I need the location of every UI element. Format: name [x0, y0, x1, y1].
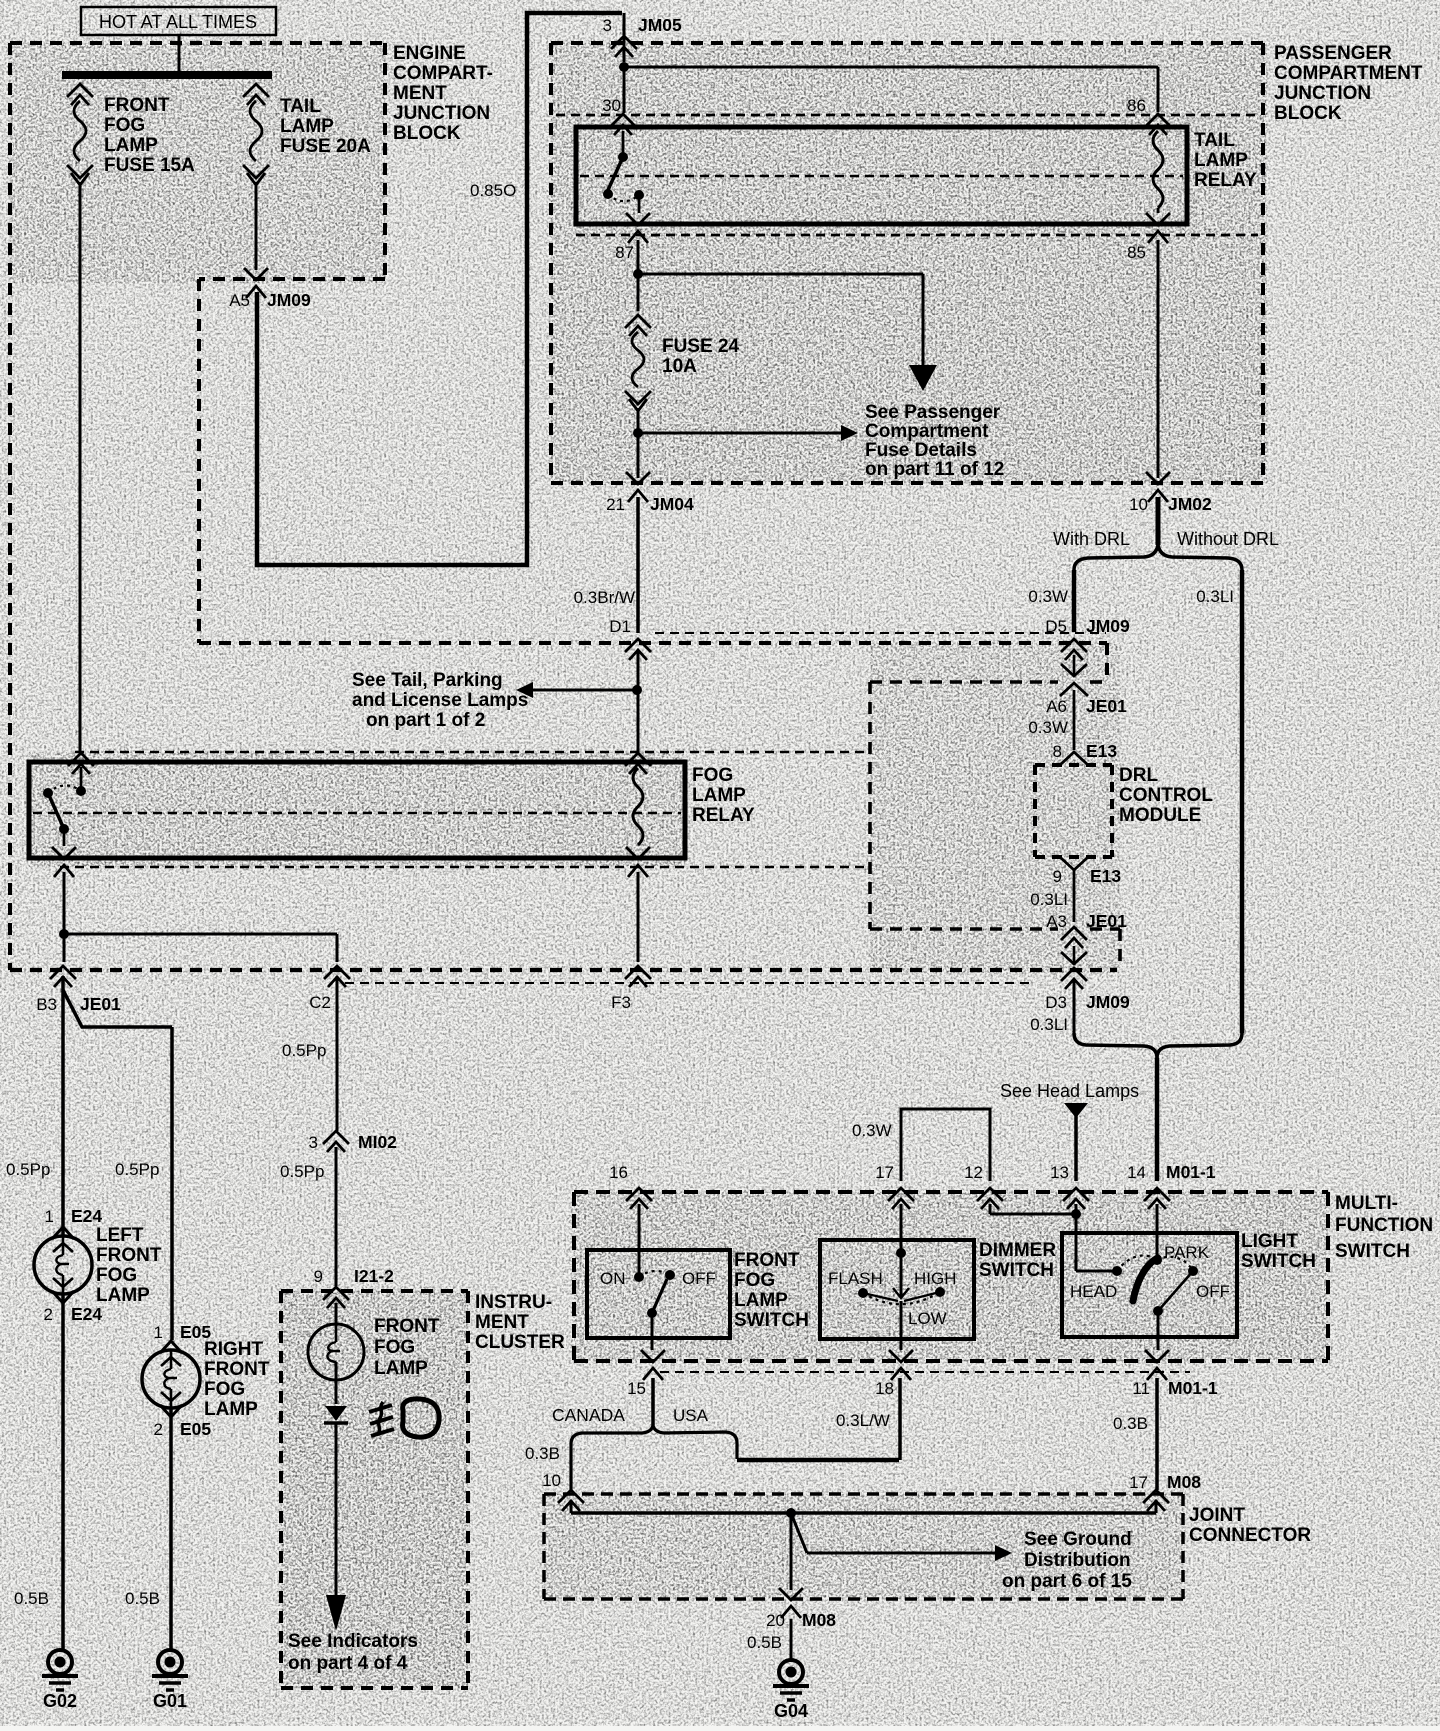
connector E24 pin 1: [45, 1206, 103, 1226]
wire pin 16 to fog switch: [638, 1204, 641, 1277]
with-DRL wire down to D5: [1072, 570, 1077, 632]
svg-text:3: 3: [603, 16, 612, 35]
svg-text:LAMP: LAMP: [96, 1285, 150, 1306]
connector D3 JM09: [1045, 968, 1130, 1012]
svg-text:11: 11: [1132, 1379, 1150, 1398]
wire label 0.85O: [470, 181, 516, 200]
svg-text:0.3L/W: 0.3L/W: [836, 1411, 890, 1430]
wire pin 87 down to JM04: [637, 240, 640, 478]
connector D5 to A6 link: [1061, 655, 1087, 676]
tail lamp relay pin 30: [602, 96, 636, 135]
left front fog lamp: [34, 1227, 92, 1303]
engine compartment junction block label: [393, 43, 493, 144]
connector M08 pin 10: [542, 1471, 584, 1511]
wire from HOT AT ALL TIMES to bus bar: [178, 35, 181, 71]
wire I21-2 into indicator: [335, 1303, 338, 1325]
tail lamp relay coil: [1153, 131, 1163, 213]
fog lamp relay coil output pin: [626, 847, 650, 877]
svg-text:OFF: OFF: [682, 1269, 716, 1288]
connector A3 JE01: [1046, 911, 1127, 948]
svg-text:HEAD: HEAD: [1070, 1282, 1117, 1301]
svg-text:and License Lamps: and License Lamps: [352, 690, 528, 711]
tail lamp fuse label: [280, 96, 371, 157]
svg-text:10: 10: [1129, 495, 1148, 514]
light switch box: [1062, 1233, 1237, 1337]
svg-text:M01-1: M01-1: [1168, 1378, 1218, 1398]
svg-text:LAMP: LAMP: [734, 1290, 788, 1311]
svg-text:LAMP: LAMP: [280, 116, 334, 137]
svg-text:on part 11 of 12: on part 11 of 12: [865, 459, 1004, 480]
svg-text:86: 86: [1127, 96, 1146, 115]
svg-text:0.3W: 0.3W: [852, 1121, 892, 1140]
svg-text:G04: G04: [774, 1701, 808, 1721]
connector M01-1 pin 17: [875, 1163, 914, 1209]
merged wire to pin 14: [1155, 1058, 1160, 1181]
svg-text:3: 3: [309, 1133, 318, 1152]
connector M08 pin 17: [1129, 1472, 1201, 1511]
svg-text:COMPART-: COMPART-: [393, 63, 493, 84]
wire C2 down to MI02: [336, 976, 339, 1131]
connector D1: [609, 617, 651, 660]
front fog lamp fuse label: [104, 95, 195, 176]
harness boundary dashed lines: [10, 970, 1117, 983]
connector M01-1 pin 16: [609, 1163, 652, 1209]
svg-text:LEFT: LEFT: [96, 1225, 144, 1246]
node: junction at JM05 feed: [619, 62, 629, 72]
wire JM02 to DRL split: [1156, 497, 1161, 545]
svg-text:F3: F3: [611, 993, 631, 1012]
canada/usa split brace: [571, 1425, 737, 1444]
svg-text:LAMP: LAMP: [692, 785, 746, 806]
note: see indicators: [288, 1631, 418, 1674]
wire from tail lamp fuse to connector A5: [255, 182, 258, 270]
svg-text:FOG: FOG: [104, 115, 145, 136]
thin dashed row below MFS: [660, 1371, 1190, 1373]
svg-text:RELAY: RELAY: [692, 805, 755, 826]
svg-text:0.5B: 0.5B: [14, 1589, 49, 1608]
svg-text:85: 85: [1127, 243, 1146, 262]
svg-text:FUSE 15A: FUSE 15A: [104, 155, 195, 176]
wire pin 11 down to joint connector: [1155, 1378, 1159, 1490]
svg-text:0.3W: 0.3W: [1028, 718, 1068, 737]
label USA: [673, 1406, 709, 1425]
wire label 0.3W (staple): [852, 1121, 892, 1140]
svg-text:LIGHT: LIGHT: [1241, 1231, 1298, 1252]
svg-text:FOG: FOG: [734, 1270, 775, 1291]
svg-text:FRONT: FRONT: [104, 95, 170, 116]
wire E13 pin 9 to A3 (0.3LI): [1030, 870, 1074, 922]
svg-text:E13: E13: [1086, 741, 1117, 761]
svg-text:RELAY: RELAY: [1194, 170, 1257, 191]
svg-text:Without DRL: Without DRL: [1177, 529, 1279, 549]
wire label 0.3W: [1028, 587, 1068, 606]
svg-text:INSTRU-: INSTRU-: [475, 1292, 552, 1313]
wire dimmer common to pin 18: [900, 1301, 903, 1350]
svg-text:I21-2: I21-2: [354, 1266, 394, 1286]
connector I21-2 pin 9: [314, 1266, 395, 1308]
svg-text:2: 2: [154, 1420, 163, 1439]
svg-text:B3: B3: [36, 995, 57, 1014]
wire pin 18 down (0.3L/W): [898, 1378, 902, 1460]
fog lamp relay coil: [633, 768, 643, 845]
svg-text:FOG: FOG: [204, 1379, 245, 1400]
svg-text:M01-1: M01-1: [1166, 1162, 1216, 1182]
svg-text:CLUSTER: CLUSTER: [475, 1332, 565, 1353]
svg-text:DRL: DRL: [1119, 765, 1158, 786]
svg-text:20: 20: [766, 1611, 785, 1630]
wire A6 to E13 pin 8 (0.3W): [1028, 690, 1074, 750]
svg-text:D1: D1: [609, 617, 631, 636]
connector F3: [611, 966, 651, 1012]
node: branch to see-tail arrow: [632, 685, 642, 695]
connector D5 JM09: [1045, 616, 1130, 660]
front fog lamp switch contacts: [600, 1269, 716, 1318]
svg-text:LOW: LOW: [908, 1309, 947, 1328]
front fog lamp switch label: [734, 1250, 809, 1331]
svg-text:21: 21: [606, 495, 625, 514]
svg-text:FUSE 20A: FUSE 20A: [280, 136, 371, 157]
svg-text:0.5B: 0.5B: [747, 1633, 782, 1652]
svg-text:0.3LI: 0.3LI: [1196, 587, 1234, 606]
svg-text:1: 1: [154, 1323, 163, 1342]
fog lamp relay coil input pin: [625, 753, 651, 774]
node: ground bus junction: [786, 1508, 796, 1518]
svg-text:With DRL: With DRL: [1053, 529, 1130, 549]
arrow to tail parking lamps: [516, 682, 637, 698]
svg-text:15: 15: [627, 1379, 646, 1398]
svg-text:E24: E24: [71, 1206, 102, 1226]
label With DRL: [1053, 529, 1130, 549]
svg-text:G01: G01: [153, 1691, 187, 1711]
connector C2: [309, 966, 350, 1012]
node: junction to instrument cluster branch: [59, 929, 69, 939]
connector M01-1 pin 12: [964, 1163, 1003, 1209]
right front fog lamp: [142, 1341, 200, 1417]
DRL junction dashed box: [870, 682, 1120, 968]
canada wire to joint connector pin 10: [569, 1444, 572, 1490]
multi-function switch dashed box: [574, 1192, 1328, 1361]
svg-text:30: 30: [602, 96, 621, 115]
DRL control module label: [1119, 765, 1213, 826]
svg-text:MI02: MI02: [358, 1132, 397, 1152]
connector M01-1 pin 11: [1132, 1350, 1218, 1398]
svg-text:MENT: MENT: [393, 83, 447, 104]
svg-text:CANADA: CANADA: [552, 1405, 625, 1425]
junction block row dashed lines at fog lamp relay: [60, 752, 868, 867]
see head lamps feed arrow: [1064, 1103, 1088, 1181]
svg-text:10A: 10A: [662, 356, 697, 377]
svg-text:0.5B: 0.5B: [125, 1589, 160, 1608]
svg-text:JM09: JM09: [1086, 992, 1130, 1012]
wire label 0.3B (canada): [525, 1444, 560, 1463]
wire from JM05 junction to tail lamp relay switch (pin 30): [623, 67, 626, 113]
arrow to passenger compartment fuse details: [638, 425, 858, 441]
fuse 24 10A: [625, 315, 651, 411]
note: see head lamps: [1000, 1081, 1139, 1101]
note: see passenger compartment fuse details: [865, 402, 1004, 480]
svg-text:on part 1 of 2: on part 1 of 2: [366, 710, 485, 731]
svg-text:JM09: JM09: [1086, 616, 1130, 636]
wire pin 14 to light switch PARK: [1156, 1204, 1159, 1260]
note: see ground distribution: [1002, 1529, 1132, 1592]
svg-text:See Ground: See Ground: [1024, 1529, 1132, 1550]
front fog lamp indicator label: [374, 1316, 440, 1379]
svg-text:JM09: JM09: [267, 290, 311, 310]
svg-text:M08: M08: [1167, 1472, 1201, 1492]
wire branch to see-passenger arrow: [638, 274, 937, 391]
svg-text:87: 87: [615, 243, 634, 262]
connector A5 JM09: [229, 268, 311, 310]
fuse 24 label: [662, 336, 740, 377]
connector B3 JE01: [36, 966, 121, 1014]
wire pin 17 to dimmer switch: [900, 1204, 903, 1253]
svg-text:SWITCH: SWITCH: [1335, 1241, 1410, 1262]
wire fog relay coil down to F3: [637, 872, 640, 962]
svg-text:JE01: JE01: [80, 994, 121, 1014]
svg-text:CONNECTOR: CONNECTOR: [1189, 1525, 1311, 1546]
tail lamp relay pin 87: [615, 213, 650, 262]
svg-text:10: 10: [542, 1471, 561, 1490]
svg-text:on part 4 of 4: on part 4 of 4: [288, 1653, 408, 1674]
fog lamp relay box: [29, 762, 685, 858]
wire from front fog lamp fuse down to fog lamp relay: [79, 182, 82, 753]
svg-text:8: 8: [1053, 742, 1062, 761]
wire light switch common to pin 11: [1157, 1311, 1160, 1350]
connector M01-1 pin 18: [875, 1350, 913, 1398]
wire D3 down (0.3LI): [1030, 980, 1074, 1034]
arrow to ground distribution: [791, 1513, 1012, 1561]
connector E13 pin 8: [1053, 741, 1118, 765]
svg-text:0.5Pp: 0.5Pp: [6, 1160, 50, 1179]
svg-text:BLOCK: BLOCK: [1274, 103, 1342, 124]
label Without DRL: [1177, 529, 1279, 549]
dashed boundary at JM09 row (y=643): [199, 643, 1107, 682]
wire lamp to ground G02: [61, 1294, 65, 1650]
wire label 0.5Pp (cluster): [280, 1162, 324, 1181]
connector MI02 pin 3: [309, 1131, 398, 1152]
connector M01-1 pin 14: [1127, 1162, 1216, 1209]
connector A6 JE01: [1046, 683, 1127, 716]
svg-text:CONTROL: CONTROL: [1119, 785, 1213, 806]
fog lamp pictogram: [369, 1399, 439, 1437]
svg-text:D5: D5: [1045, 617, 1067, 636]
fog lamp relay switch output pin: [52, 847, 76, 877]
note: see tail parking and license lamps: [352, 670, 528, 731]
svg-text:9: 9: [1053, 867, 1062, 886]
wire from JM05 junction to tail lamp relay coil (pin 86): [624, 67, 1158, 112]
svg-text:FUSE 24: FUSE 24: [662, 336, 740, 357]
light switch contacts: [1070, 1243, 1230, 1316]
svg-text:1: 1: [45, 1207, 54, 1226]
power bus bar: [62, 71, 272, 79]
wire bus to pin 20: [790, 1513, 793, 1590]
svg-text:SWITCH: SWITCH: [734, 1310, 809, 1331]
wire label 0.5Pp left: [6, 1160, 50, 1179]
light switch label: [1241, 1231, 1316, 1272]
connector E24 pin 2: [44, 1304, 103, 1324]
tail lamp relay pin 85: [1127, 213, 1170, 262]
connector M08 pin 20: [766, 1588, 836, 1630]
ground G01: [152, 1650, 188, 1711]
svg-text:16: 16: [609, 1163, 628, 1182]
svg-text:USA: USA: [673, 1406, 709, 1425]
svg-text:DIMMER: DIMMER: [979, 1240, 1056, 1261]
svg-text:0.5Pp: 0.5Pp: [282, 1041, 326, 1060]
svg-text:JUNCTION: JUNCTION: [393, 103, 490, 124]
wire label 0.5Pp right: [115, 1160, 159, 1179]
svg-text:0.3LI: 0.3LI: [1030, 1015, 1068, 1034]
svg-text:JM02: JM02: [1168, 494, 1212, 514]
wire branch to connector C2: [64, 934, 337, 962]
tail lamp relay label: [1194, 130, 1257, 191]
instrument cluster dashed box: [281, 1291, 468, 1688]
svg-text:18: 18: [875, 1379, 894, 1398]
svg-text:17: 17: [1129, 1473, 1148, 1492]
thin dashed row line above JM09 boundary: [655, 632, 1106, 634]
svg-text:LAMP: LAMP: [374, 1358, 428, 1379]
svg-text:FOG: FOG: [96, 1265, 137, 1286]
dimmer switch label: [979, 1240, 1056, 1281]
connector JM05 pin 3: [603, 13, 683, 62]
wire pin 15 down to split: [651, 1378, 655, 1425]
wire label 0.5Pp (C2): [282, 1041, 326, 1060]
svg-text:0.3LI: 0.3LI: [1030, 890, 1068, 909]
joint connector label: [1189, 1505, 1311, 1546]
svg-text:RIGHT: RIGHT: [204, 1339, 264, 1360]
svg-text:Compartment: Compartment: [865, 421, 989, 442]
svg-text:SWITCH: SWITCH: [979, 1260, 1054, 1281]
svg-text:PASSENGER: PASSENGER: [1274, 43, 1392, 64]
wire MI02 to I21-2: [335, 1147, 338, 1286]
fog lamp relay switch input pin: [68, 753, 94, 787]
svg-text:FRONT: FRONT: [374, 1316, 440, 1337]
engine compartment junction block (dashed outline): [10, 43, 385, 970]
joint connector internal bus: [571, 1500, 1156, 1513]
svg-text:13: 13: [1050, 1163, 1069, 1182]
connector M01-1 pin 15: [627, 1350, 665, 1398]
connector JM04 pin 21: [606, 472, 694, 514]
svg-text:MODULE: MODULE: [1119, 805, 1201, 826]
right front fog lamp label: [204, 1339, 270, 1420]
svg-text:ON: ON: [600, 1269, 626, 1288]
junction block connector row dashed lines (tail lamp relay): [556, 115, 1258, 235]
svg-text:JE01: JE01: [1086, 696, 1127, 716]
svg-text:Fuse Details: Fuse Details: [865, 440, 977, 461]
wire pin 12 to pin 13 junction: [990, 1204, 1081, 1219]
svg-text:LAMP: LAMP: [204, 1399, 258, 1420]
svg-text:17: 17: [875, 1163, 894, 1182]
svg-text:0.3W: 0.3W: [1028, 587, 1068, 606]
svg-text:12: 12: [964, 1163, 983, 1182]
connector E05 pin 2: [154, 1419, 212, 1439]
svg-text:BLOCK: BLOCK: [393, 123, 461, 144]
connector E05 pin 1: [154, 1322, 212, 1342]
svg-text:JM04: JM04: [650, 494, 694, 514]
tail lamp relay box: [576, 127, 1187, 224]
svg-text:SWITCH: SWITCH: [1241, 1251, 1316, 1272]
svg-text:0.3B: 0.3B: [1113, 1414, 1148, 1433]
joint connector dashed box: [544, 1494, 1183, 1599]
svg-text:A5: A5: [229, 291, 250, 310]
wire lamp to ground G01: [169, 1408, 173, 1650]
DRL merge brace: [1074, 1033, 1242, 1058]
svg-text:MULTI-: MULTI-: [1335, 1193, 1398, 1214]
svg-text:FOG: FOG: [374, 1337, 415, 1358]
svg-text:LAMP: LAMP: [1194, 150, 1248, 171]
wire D1 down to fog lamp relay: [637, 650, 640, 753]
svg-text:HIGH: HIGH: [914, 1269, 957, 1288]
svg-text:D3: D3: [1045, 993, 1067, 1012]
ground G02: [42, 1650, 78, 1711]
svg-text:FRONT: FRONT: [96, 1245, 162, 1266]
wire diode to see-indicators arrow: [326, 1423, 346, 1631]
fuse: front fog lamp fuse 15A: [67, 84, 93, 185]
svg-text:A6: A6: [1046, 697, 1067, 716]
svg-text:PARK: PARK: [1164, 1243, 1210, 1262]
wire label 0.3B (light switch): [1113, 1414, 1148, 1433]
svg-text:2: 2: [44, 1305, 53, 1324]
svg-text:See Indicators: See Indicators: [288, 1631, 418, 1652]
svg-text:0.5Pp: 0.5Pp: [115, 1160, 159, 1179]
wire label 0.5B left: [14, 1589, 49, 1608]
passenger compartment junction block label: [1274, 43, 1423, 124]
svg-text:ENGINE: ENGINE: [393, 43, 466, 64]
svg-text:JUNCTION: JUNCTION: [1274, 83, 1371, 104]
dimmer switch contacts: [828, 1248, 957, 1328]
svg-text:FUNCTION: FUNCTION: [1335, 1215, 1433, 1236]
svg-text:See Head Lamps: See Head Lamps: [1000, 1081, 1139, 1101]
front fog lamp indicator bulb: [308, 1324, 364, 1404]
node: junction below fuse 24: [633, 428, 643, 438]
routing wire A5 to JM05: [257, 13, 622, 565]
connector E13 pin 9: [1053, 858, 1122, 886]
svg-text:COMPARTMENT: COMPARTMENT: [1274, 63, 1423, 84]
svg-text:14: 14: [1127, 1163, 1146, 1182]
wire pin 20 to ground G04 (0.5B): [747, 1619, 791, 1660]
svg-text:JOINT: JOINT: [1189, 1505, 1245, 1526]
instrument cluster label: [475, 1292, 565, 1353]
DRL split brace: [1074, 545, 1242, 570]
svg-text:G02: G02: [43, 1691, 77, 1711]
svg-text:E24: E24: [71, 1304, 102, 1324]
wire JM04 down to D1: [636, 497, 640, 633]
svg-text:TAIL: TAIL: [1194, 130, 1235, 151]
wire label 0.5B right: [125, 1589, 160, 1608]
svg-text:TAIL: TAIL: [280, 96, 321, 117]
svg-text:Distribution: Distribution: [1024, 1550, 1131, 1571]
connector JM02 pin 10: [1129, 472, 1212, 514]
fog lamp relay label: [692, 765, 755, 826]
node: branch to passenger fuse details: [633, 269, 643, 279]
label CANADA: [552, 1405, 625, 1425]
tail lamp relay switch: [603, 131, 644, 213]
svg-text:E05: E05: [180, 1419, 211, 1439]
svg-text:FRONT: FRONT: [734, 1250, 800, 1271]
svg-text:9: 9: [314, 1267, 323, 1286]
svg-text:FLASH: FLASH: [828, 1269, 883, 1288]
wire B3 split to left and right fog lamps: [63, 976, 172, 1340]
wire fog relay output down: [63, 872, 66, 962]
dimmer link staple (pins 17-12): [901, 1109, 990, 1181]
fog lamp relay switch: [43, 785, 86, 846]
svg-text:E13: E13: [1090, 866, 1121, 886]
wire fog switch common to pin 15: [651, 1313, 654, 1350]
without-DRL wire down right side: [1240, 570, 1245, 1033]
ground G04: [773, 1660, 809, 1721]
svg-text:OFF: OFF: [1196, 1282, 1230, 1301]
svg-text:See Passenger: See Passenger: [865, 402, 1001, 423]
multi-function switch label: [1335, 1193, 1433, 1262]
